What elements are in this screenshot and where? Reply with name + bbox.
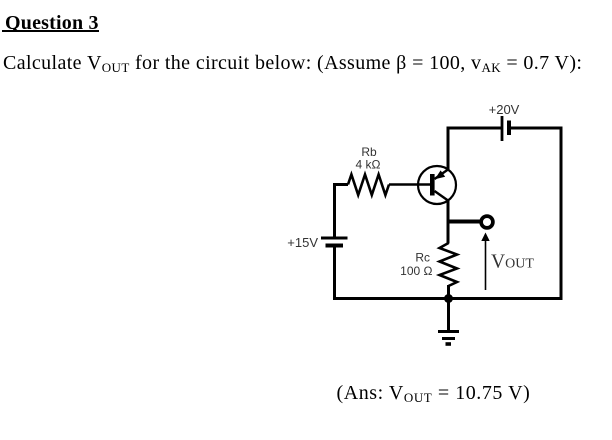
wire: battery V1 bottom to bottom rail	[333, 248, 336, 300]
arrow VOUT	[481, 233, 489, 291]
svg-text:+20V: +20V	[489, 102, 520, 117]
label Rb 4 kOhm	[356, 145, 381, 172]
wire: output stub	[447, 220, 480, 224]
wire: bottom rail	[333, 297, 563, 300]
answer text	[337, 382, 531, 406]
transistor Q1 (PNP)	[418, 166, 456, 204]
junction: output ground node	[444, 294, 453, 303]
svg-text:VOUT: VOUT	[491, 252, 534, 273]
question text	[3, 52, 582, 76]
wire: battery V1 top to resistor Rb	[335, 185, 349, 237]
wire: Rb to base of Q1	[389, 183, 430, 186]
battery V2 +20V	[502, 116, 509, 141]
wire: Rc to bottom rail and ground	[447, 285, 450, 331]
heading underline	[2, 30, 99, 32]
ground	[438, 332, 459, 345]
wire: collector of Q1 to Rc	[447, 200, 450, 244]
wire: emitter of Q1 to top rail	[448, 128, 501, 170]
wire: battery V2 to right rail	[511, 127, 563, 130]
svg-text:4 kΩ: 4 kΩ	[356, 158, 381, 172]
output terminal	[481, 216, 493, 228]
wire: right rail	[560, 127, 563, 301]
resistor Rc	[440, 243, 458, 286]
svg-text:Rc: Rc	[415, 251, 430, 265]
resistor Rb	[348, 175, 389, 196]
label Rc 100 Ohm	[400, 251, 432, 279]
heading Question 3	[5, 12, 99, 35]
svg-text:100 Ω: 100 Ω	[400, 264, 432, 278]
svg-text:+15V: +15V	[287, 235, 318, 250]
battery V1 +15V	[321, 238, 348, 246]
